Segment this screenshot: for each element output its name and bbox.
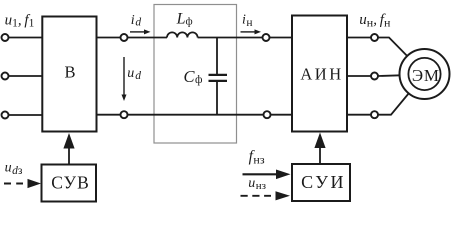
wire output bottom to motor xyxy=(378,94,408,115)
arrow ud (down) xyxy=(123,57,125,96)
node input C terminal xyxy=(2,112,9,119)
svg-text:СУВ: СУВ xyxy=(51,172,90,192)
node output bottom terminal xyxy=(371,111,378,118)
wire output phase bottom xyxy=(347,114,375,116)
control unit SUI xyxy=(292,164,350,201)
arrow SUI to AIN xyxy=(319,146,321,164)
inverter AIN xyxy=(292,16,347,132)
node input B terminal xyxy=(2,73,9,80)
wire phase input C xyxy=(5,114,42,116)
node id terminal xyxy=(121,34,128,41)
wire dc bus plus (inductor to AIN) xyxy=(198,37,292,39)
node output top terminal xyxy=(371,34,378,41)
node output mid terminal xyxy=(371,73,378,80)
svg-text:В: В xyxy=(64,62,75,81)
wire phase input A xyxy=(5,37,42,39)
arrow iн xyxy=(241,31,257,33)
solid arrow fнз to SUI xyxy=(243,173,278,175)
filter box (thin gray rectangle around Lf/Cf) xyxy=(154,5,237,144)
inductor Lf xyxy=(167,32,198,37)
control unit SUV xyxy=(42,165,97,202)
wire output phase mid xyxy=(347,75,375,77)
node minus bus left terminal xyxy=(121,111,128,118)
node input A terminal xyxy=(2,34,9,41)
svg-text:СУИ: СУИ xyxy=(301,172,346,192)
wire dc bus plus (B to inductor) xyxy=(97,37,168,39)
wire output phase top xyxy=(347,37,375,39)
dashed arrow udз to SUV xyxy=(4,183,23,185)
svg-text:ЭМ: ЭМ xyxy=(412,66,440,85)
wire dc bus minus xyxy=(97,114,293,116)
rectifier B xyxy=(42,17,96,132)
node iн terminal xyxy=(263,34,270,41)
svg-text:АИН: АИН xyxy=(300,65,343,84)
motor EM xyxy=(400,49,450,99)
wire output top to motor xyxy=(378,38,407,57)
wire phase input B xyxy=(5,75,42,77)
node minus bus right terminal xyxy=(264,111,271,118)
svg-text:uн,fн: uн,fн xyxy=(359,12,391,30)
wire output mid to motor xyxy=(378,74,400,77)
capacitor Cf xyxy=(216,38,218,75)
dashed arrow uнз to SUI xyxy=(241,195,272,197)
arrow SUV to B xyxy=(68,146,70,165)
arrow id xyxy=(130,31,146,33)
